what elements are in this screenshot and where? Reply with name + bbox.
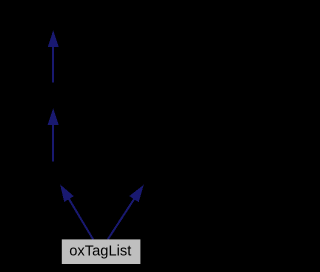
edge E4 shaft (right diagonal inheritance arrow from oxTagList) bbox=[108, 199, 135, 240]
edge E2 shaft (middle vertical inheritance arrow) bbox=[52, 124, 54, 162]
svg-text:oxTagList: oxTagList bbox=[69, 244, 131, 260]
edge E1 arrowhead bbox=[48, 30, 59, 47]
edge E3 shaft (left diagonal inheritance arrow from oxTagList) bbox=[69, 199, 93, 240]
edge E3 arrowhead bbox=[60, 184, 74, 202]
node oxTagList box bbox=[62, 239, 141, 264]
edge E2 arrowhead bbox=[48, 108, 59, 125]
edge E4 arrowhead bbox=[129, 185, 144, 202]
edge E1 shaft (top vertical inheritance arrow) bbox=[52, 46, 54, 83]
